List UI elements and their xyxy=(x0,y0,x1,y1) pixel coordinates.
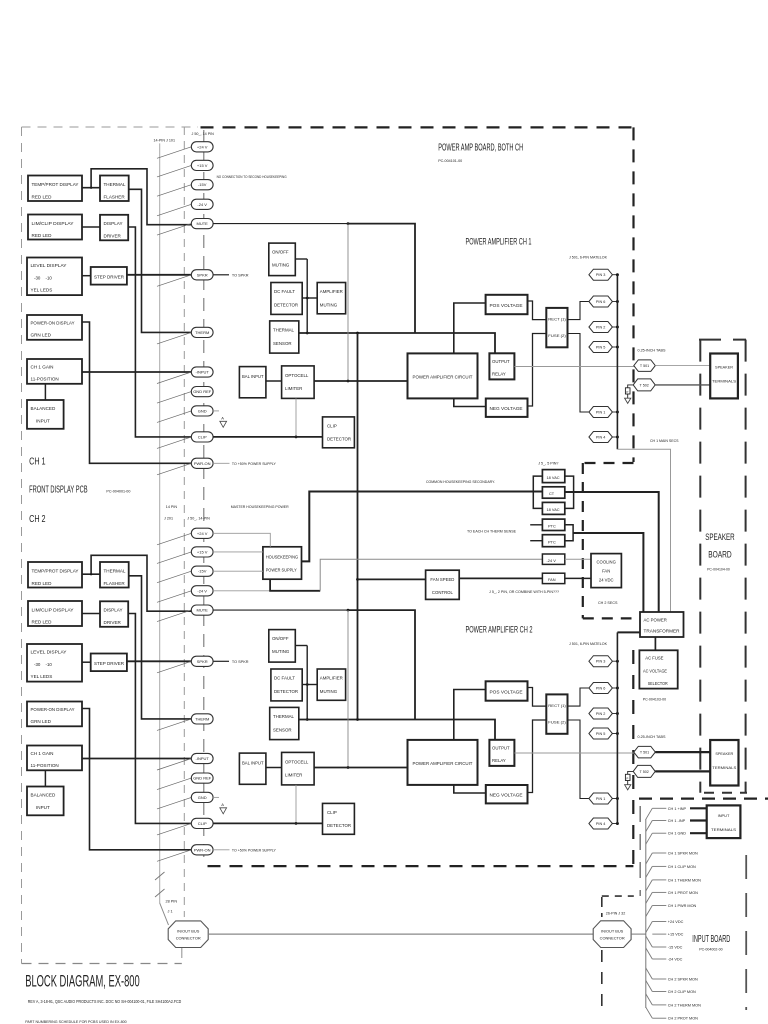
svg-text:-10: -10 xyxy=(46,662,53,667)
svg-text:DC FAULT: DC FAULT xyxy=(274,289,295,294)
CH 2 ON/OFF MUTING box xyxy=(269,630,296,663)
wire: ribbon fan to CH 2 -15V pin xyxy=(157,571,191,583)
wire: -24 V terminal to cooling fan (gray) xyxy=(565,558,591,560)
svg-text:MUTING: MUTING xyxy=(272,263,290,268)
svg-text:PIN 3: PIN 3 xyxy=(596,273,606,277)
power amp board dashed border (bottom) xyxy=(208,865,634,867)
connector J 32: IN/OUT BUS CONNECTOR (input board) xyxy=(593,921,631,948)
CH 1 LEVEL DISPLAY YEL LEDS box xyxy=(27,258,82,296)
wire: CH 1 PAC to POS VOLTAGE xyxy=(454,303,486,353)
wire: CH 1 TEMP/PROT DISPLAY to THERMAL FLASHER xyxy=(82,187,100,189)
connector pin CLIP (CH 2 J 50_) xyxy=(191,818,213,828)
svg-text:TRANSFORMER: TRANSFORMER xyxy=(644,628,680,633)
wire: FAN terminal to cooling fan xyxy=(565,577,591,579)
svg-text:THERMAL: THERMAL xyxy=(104,182,126,187)
wire: ribbon fan to CH 2 -INPUT pin xyxy=(157,759,191,771)
svg-text:SPEAKER: SPEAKER xyxy=(705,532,735,542)
wire: FAN SPEED CONTROL to FAN terminal xyxy=(459,577,542,579)
wire: PIN 2 stub to secondary bus xyxy=(612,713,617,715)
svg-text:BALANCED: BALANCED xyxy=(31,793,56,798)
svg-text:MUTING: MUTING xyxy=(320,303,338,308)
svg-text:14-PIN J 101: 14-PIN J 101 xyxy=(154,139,176,143)
wire: CH 1 T 502 to speaker terminals xyxy=(655,384,710,386)
svg-text:CLIP: CLIP xyxy=(327,423,337,428)
svg-text:COOLING: COOLING xyxy=(597,559,616,564)
wire: ribbon fan to CH 1 -24 V pin xyxy=(157,204,191,216)
svg-text:GND: GND xyxy=(198,795,207,800)
power amp board dashed border (top) xyxy=(201,126,634,128)
svg-text:NEG VOLTAGE: NEG VOLTAGE xyxy=(490,793,523,798)
svg-text:CH 1 THERM MON: CH 1 THERM MON xyxy=(668,878,701,882)
svg-text:BOARD: BOARD xyxy=(708,550,732,560)
junction on CH 2 flasher wire xyxy=(90,573,92,575)
svg-text:HOUSEKEEPING: HOUSEKEEPING xyxy=(266,554,299,559)
wire: PIN 5 stub to secondary bus xyxy=(612,733,617,735)
svg-text:RED LED: RED LED xyxy=(32,581,53,586)
svg-text:PTC: PTC xyxy=(548,524,556,529)
svg-text:IN/OUT BUS: IN/OUT BUS xyxy=(601,929,624,934)
svg-text:THERMAL: THERMAL xyxy=(273,714,295,719)
wire: CH 1 DISPLAY DRIVER to CLIP pin xyxy=(128,227,191,437)
CH 1 OPTOCELL LIMITER box xyxy=(282,366,315,399)
svg-text:11-POSITION: 11-POSITION xyxy=(31,377,59,382)
svg-text:CH 1 CLIP MON: CH 1 CLIP MON xyxy=(668,865,696,869)
connector pin -15V (CH 1 J 50_) xyxy=(191,180,213,190)
junction CH 1 clip line xyxy=(295,436,298,439)
svg-text:INPUT BOARD: INPUT BOARD xyxy=(692,934,730,945)
connector pin -INPUT (CH 1 J 50_) xyxy=(191,367,213,377)
svg-text:PIN 1: PIN 1 xyxy=(596,410,606,414)
CH 2 BAL INPUT box xyxy=(239,753,266,784)
input board dashed border (right) xyxy=(745,855,747,1010)
connector pin -24 V (CH 1 J 50_) xyxy=(191,199,213,209)
svg-text:GRN LED: GRN LED xyxy=(31,719,52,724)
wire: -15V pin to housekeeping supply (gray) xyxy=(213,570,263,572)
wire: 18 VAC windings right bracket xyxy=(565,476,574,508)
wire: ribbon fan to CH 1 CLIP pin xyxy=(157,437,191,449)
CH 2 THERMAL SENSOR box xyxy=(270,707,299,739)
wire: J 32 fan bundle xyxy=(645,819,647,1008)
svg-text:THERMAL: THERMAL xyxy=(273,327,295,332)
wire: PIN 4 stub to secondary bus xyxy=(612,436,617,438)
svg-text:P: P xyxy=(626,776,628,780)
svg-text:RECT (1): RECT (1) xyxy=(548,316,566,321)
signal CH 1 PWR MON xyxy=(646,906,653,917)
svg-text:RELAY: RELAY xyxy=(492,758,506,763)
wire: CH 2 muting bus to output relay xyxy=(299,720,495,740)
wire: muting tie to FAN SPEED CONTROL xyxy=(358,578,426,580)
svg-text:PIN 4: PIN 4 xyxy=(596,822,606,826)
CH 2 THERMAL FLASHER box xyxy=(100,562,129,588)
svg-text:J 5_, 5 PIN?: J 5_, 5 PIN? xyxy=(538,462,558,466)
CH 2 OUTPUT RELAY box xyxy=(489,740,514,766)
wire: CH 1 secondary bus xyxy=(616,275,618,450)
INPUT TERMINALS box xyxy=(707,805,741,838)
CH 2 GAIN 11-POSITION box xyxy=(27,746,82,771)
AC FUSE / AC VOLTAGE SELECTOR box xyxy=(639,650,677,688)
svg-text:18 VAC: 18 VAC xyxy=(547,507,560,512)
svg-text:RED LED: RED LED xyxy=(32,194,53,199)
svg-text:24 VDC: 24 VDC xyxy=(599,577,614,582)
svg-text:DETECTOR: DETECTOR xyxy=(327,436,351,441)
svg-text:FUSE (2): FUSE (2) xyxy=(548,333,566,338)
HOUSEKEEPING POWER SUPPLY box xyxy=(263,547,302,579)
junction PIN 5 on secondary bus xyxy=(616,346,619,349)
svg-text:-24 V: -24 V xyxy=(547,558,557,563)
svg-text:A: A xyxy=(221,416,224,421)
svg-text:+24 V: +24 V xyxy=(197,531,208,536)
svg-text:18 VAC: 18 VAC xyxy=(547,475,560,480)
svg-text:PIN 6: PIN 6 xyxy=(596,686,606,690)
svg-text:PWR-ON: PWR-ON xyxy=(194,847,211,852)
chassis ground symbol at CH 1 T 502 xyxy=(628,385,634,388)
wire: CH 2 secondary bus xyxy=(616,632,618,823)
signal CH 1 GND xyxy=(646,833,653,844)
svg-text:TO EACH CH THERM SENSE: TO EACH CH THERM SENSE xyxy=(467,529,517,533)
wire: CH 2 SPKR pin to TO SPKR xyxy=(213,660,229,662)
svg-text:14 PIN: 14 PIN xyxy=(166,505,178,509)
svg-text:PC-004104-00: PC-004104-00 xyxy=(707,568,730,572)
connector pin PIN 2 (CH 2 J 501) xyxy=(589,708,613,719)
CH 1 POWER AMPLIFIER CIRCUIT box xyxy=(408,353,478,398)
svg-text:POWER AMPLIFIER CIRCUIT: POWER AMPLIFIER CIRCUIT xyxy=(413,761,473,766)
svg-text:CLIP: CLIP xyxy=(198,821,207,826)
svg-text:LEVEL DISPLAY: LEVEL DISPLAY xyxy=(31,650,67,655)
svg-text:GND: GND xyxy=(198,408,207,413)
wire: CH 2 PWR-ON pin to power supply note xyxy=(213,849,229,851)
wire: CH 1 THERMAL FLASHER to THERM pin xyxy=(129,189,192,332)
junction PIN 3 on secondary bus xyxy=(616,273,619,276)
CH 2 RECT (1) FUSE (2) box xyxy=(546,694,567,733)
transformer winding CT xyxy=(542,487,564,498)
signal +15 VDC xyxy=(652,933,666,935)
svg-text:CH 2 SPKR MON: CH 2 SPKR MON xyxy=(668,978,698,982)
wire: housekeeping -24 V output xyxy=(270,579,320,591)
junction CH 2 clip line xyxy=(295,822,298,825)
signal CH 1 PROT MON xyxy=(646,892,653,903)
svg-text:LIM/CLIP DISPLAY: LIM/CLIP DISPLAY xyxy=(32,221,74,226)
signal CH 1 THERM MON xyxy=(646,880,653,891)
wire: CH 2 LIM/CLIP DISPLAY to DISPLAY DRIVER xyxy=(82,613,100,615)
svg-text:11-POSITION: 11-POSITION xyxy=(31,763,59,768)
wire: CH 1 muting vertical tie xyxy=(306,259,308,333)
svg-text:TEMP/PROT DISPLAY: TEMP/PROT DISPLAY xyxy=(32,182,79,187)
CH 1 AMPLIFIER MUTING box xyxy=(317,283,345,314)
signal -24 VDC xyxy=(646,948,653,959)
svg-text:OPTOCELL: OPTOCELL xyxy=(285,373,309,378)
signal CH 1 +INP xyxy=(646,808,653,819)
svg-text:POS VOLTAGE: POS VOLTAGE xyxy=(490,303,523,308)
svg-text:MUTE: MUTE xyxy=(197,221,209,226)
wire: -24 V feed to fan (gray) xyxy=(320,559,542,591)
FAN terminal box xyxy=(542,573,564,583)
connector pin PIN 3 (CH 1 J 501) xyxy=(589,269,613,280)
connector pin PWR-ON (CH 1 J 50_) xyxy=(191,458,213,468)
svg-text:RED LED: RED LED xyxy=(32,620,53,625)
wire: 18 VAC windings left bracket xyxy=(533,476,542,508)
wire: CH 2 POWER-ON DISPLAY to PWR-ON pin xyxy=(82,709,191,850)
wire: CH 1 CLIP pin to CLIP DETECTOR xyxy=(213,436,322,438)
wire: PIN 6 stub to secondary bus xyxy=(612,301,617,303)
svg-text:PTC: PTC xyxy=(548,539,556,544)
wire: CH 1 LIM/CLIP DISPLAY to DISPLAY DRIVER xyxy=(82,226,100,228)
connector J 1: IN/OUT BUS CONNECTOR (front display PCB) xyxy=(168,921,208,948)
junction PIN 6 on secondary bus xyxy=(616,300,619,303)
wire: CH 1 ON/OFF MUTING output xyxy=(295,258,307,260)
wire: PIN 3 stub to secondary bus xyxy=(612,274,617,276)
junction at CH 1 muting node xyxy=(306,297,309,300)
svg-text:MUTE: MUTE xyxy=(197,608,209,613)
junction PIN 3 on secondary bus xyxy=(616,660,619,663)
connector pin THERM (CH 1 J 50_) xyxy=(191,327,213,337)
connector pin PIN 4 (CH 1 J 501) xyxy=(589,432,613,443)
svg-text:-INPUT: -INPUT xyxy=(196,756,210,761)
svg-text:PC-004101-00: PC-004101-00 xyxy=(438,159,462,163)
CH 2 LEVEL DISPLAY YEL LEDS box xyxy=(27,644,82,682)
connector pin -24 V (CH 2 J 50_) xyxy=(191,586,213,596)
svg-text:FAN: FAN xyxy=(602,568,610,573)
wire: ribbon fan to CH 2 PWR-ON pin xyxy=(157,850,191,862)
svg-text:CH 1 GAIN: CH 1 GAIN xyxy=(31,365,54,370)
svg-text:NEG VOLTAGE: NEG VOLTAGE xyxy=(490,406,523,411)
signal -15 VDC xyxy=(646,936,653,947)
svg-text:TEMP/PROT DISPLAY: TEMP/PROT DISPLAY xyxy=(32,569,79,574)
svg-text:DRIVER: DRIVER xyxy=(104,234,122,239)
svg-text:STEP DRIVER: STEP DRIVER xyxy=(94,661,125,666)
svg-text:PIN 2: PIN 2 xyxy=(596,325,606,329)
connector pin PIN 6 (CH 2 J 501) xyxy=(589,683,613,694)
CH 1 NEG VOLTAGE box xyxy=(486,399,528,417)
wire: CH 1 OPTOCELL LIMITER to POWER AMPLIFIER CIRCUIT xyxy=(314,380,407,382)
wire: CH 1 mute to limiter (gray) xyxy=(347,224,349,381)
CH 2 TEMP/PROT DISPLAY RED LED box xyxy=(28,562,82,588)
speaker board dashed border (top) xyxy=(699,339,746,341)
svg-text:CH 1 MAIN SECS: CH 1 MAIN SECS xyxy=(650,439,679,443)
wire: -24 V pin line (gray) xyxy=(213,590,270,592)
svg-text:-10: -10 xyxy=(46,276,53,281)
svg-text:AMPLIFIER: AMPLIFIER xyxy=(320,289,343,294)
junction CH 1 muting bus / inter-channel tie xyxy=(356,332,359,335)
svg-text:J 201: J 201 xyxy=(164,516,173,520)
wire: CH 1 PAC to NEG VOLTAGE xyxy=(454,398,486,406)
connector pin SPKR (CH 2 J 50_) xyxy=(191,656,213,666)
speaker tab T 501 (CH 2, 0.25-INCH TABS) xyxy=(634,746,656,758)
junction CH 2 MUTE wire xyxy=(347,609,350,612)
power amp board dashed border (right upper) xyxy=(632,127,634,462)
svg-text:-15 VDC: -15 VDC xyxy=(668,946,683,950)
bus hash tick xyxy=(155,889,165,897)
CH 1 OUTPUT RELAY box xyxy=(489,353,514,379)
speaker board dashed border (right) xyxy=(745,340,747,793)
svg-text:T 502: T 502 xyxy=(640,383,649,387)
CH 1 POWER-ON DISPLAY GRN LED box xyxy=(27,315,82,340)
signal CH 2 THERM MON xyxy=(646,994,653,1005)
wire: +15 V pin to housekeeping supply (gray) xyxy=(213,551,263,553)
svg-text:J 501, 6-PIN MATELOK: J 501, 6-PIN MATELOK xyxy=(569,256,608,260)
connector pin +24 V (CH 1 J 50_) xyxy=(191,142,213,152)
svg-text:PIN 5: PIN 5 xyxy=(596,732,606,736)
svg-text:CH 1 GAIN: CH 1 GAIN xyxy=(31,751,54,756)
svg-text:PIN 1: PIN 1 xyxy=(596,797,606,801)
wire: CH 2 BAL INPUT to OPTOCELL LIMITER xyxy=(266,767,282,769)
svg-text:RELAY: RELAY xyxy=(492,371,506,376)
bus hash tick xyxy=(155,872,165,880)
svg-text:GND REF: GND REF xyxy=(193,389,212,394)
svg-text:TERMINALS: TERMINALS xyxy=(711,827,736,832)
wire: CH 2 OPTOCELL LIMITER to POWER AMPLIFIER CIRCUIT xyxy=(314,767,407,769)
input board dashed frame below J 32 connector xyxy=(601,950,603,1007)
svg-text:ON/OFF: ON/OFF xyxy=(272,636,289,641)
wire: CH 1 GAIN to BALANCED INPUT xyxy=(44,384,46,400)
connector pin MUTE (CH 2 J 50_) xyxy=(191,605,213,615)
PTC sensor (upper) xyxy=(542,519,564,530)
svg-text:TO +50% POWER SUPPLY: TO +50% POWER SUPPLY xyxy=(232,462,276,466)
CH 1 BALANCED INPUT box xyxy=(27,400,64,429)
svg-text:BALANCED: BALANCED xyxy=(31,406,56,411)
CH 1 ON/OFF MUTING box xyxy=(269,243,296,276)
svg-text:BAL INPUT: BAL INPUT xyxy=(242,374,264,379)
wire: CH 2 DISPLAY DRIVER to CLIP pin xyxy=(128,614,191,824)
connector pin -15V (CH 2 J 50_) xyxy=(191,566,213,576)
wire: CH 2 STEP DRIVER to SPKR pin xyxy=(127,660,191,662)
connector pin GND (CH 2 J 50_) xyxy=(191,792,213,802)
front display PCB dashed border (left) xyxy=(21,127,23,964)
svg-text:POWER SUPPLY: POWER SUPPLY xyxy=(266,567,297,572)
svg-text:-INPUT: -INPUT xyxy=(196,370,210,375)
svg-text:LIM/CLIP DISPLAY: LIM/CLIP DISPLAY xyxy=(32,608,74,613)
svg-text:LEVEL DISPLAY: LEVEL DISPLAY xyxy=(31,263,67,268)
front display PCB dashed border (bottom) xyxy=(22,963,182,965)
connector pin MUTE (CH 1 J 50_) xyxy=(191,219,213,229)
svg-text:CLIP: CLIP xyxy=(327,810,337,815)
svg-text:OUTPUT: OUTPUT xyxy=(492,359,510,364)
junction CH 1 limiter input xyxy=(347,380,350,383)
CH 2 DC FAULT DETECTOR box xyxy=(271,669,302,701)
CH 1 STEP DRIVER box xyxy=(91,267,127,285)
svg-text:PC-004103-00: PC-004103-00 xyxy=(643,698,666,702)
CH 2 DISPLAY DRIVER box xyxy=(100,601,128,627)
svg-text:CH 1 PWR MON: CH 1 PWR MON xyxy=(668,904,697,908)
svg-text:THERM: THERM xyxy=(195,716,209,721)
connector pin CLIP (CH 1 J 50_) xyxy=(191,432,213,442)
svg-text:IN/OUT BUS: IN/OUT BUS xyxy=(177,929,200,934)
svg-text:CH 1 +INP: CH 1 +INP xyxy=(668,807,687,811)
signal CH 1 -INP xyxy=(646,821,653,832)
svg-text:-24 V: -24 V xyxy=(197,588,207,593)
svg-text:SENSOR: SENSOR xyxy=(273,341,292,346)
svg-text:AMPLIFIER: AMPLIFIER xyxy=(320,676,343,681)
svg-text:28 PIN: 28 PIN xyxy=(166,900,178,904)
connector pin PIN 1 (CH 1 J 501) xyxy=(589,407,613,418)
svg-text:POWER AMP BOARD, BOTH CH: POWER AMP BOARD, BOTH CH xyxy=(438,143,523,154)
wire: CH 1 PWR-ON pin to power supply note xyxy=(213,462,229,464)
svg-text:POS VOLTAGE: POS VOLTAGE xyxy=(490,689,523,694)
svg-text:POWER AMPLIFIER CH 2: POWER AMPLIFIER CH 2 xyxy=(466,625,533,636)
transformer winding 18 VAC (lower) xyxy=(542,502,564,514)
CH 2 POS VOLTAGE box xyxy=(486,681,528,700)
wire: PIN 2 stub to secondary bus xyxy=(612,326,617,328)
connector pin -INPUT (CH 2 J 50_) xyxy=(191,753,213,763)
wire: housekeeping secondary (CT) line xyxy=(302,492,543,562)
CH 1 DC FAULT DETECTOR box xyxy=(271,283,302,315)
svg-text:TO SPKR: TO SPKR xyxy=(232,660,249,664)
svg-text:DETECTOR: DETECTOR xyxy=(274,303,298,308)
svg-text:PIN 2: PIN 2 xyxy=(596,712,606,716)
COOLING FAN 24 VDC box xyxy=(591,554,621,588)
svg-text:YEL LEDS: YEL LEDS xyxy=(31,674,53,679)
svg-text:PIN 6: PIN 6 xyxy=(596,300,606,304)
svg-text:MUTING: MUTING xyxy=(272,649,290,654)
wire: CH 1 POWER-ON DISPLAY to PWR-ON pin xyxy=(82,322,191,463)
speaker board dashed border (left) xyxy=(699,340,701,793)
CH 2 POWER-ON DISPLAY GRN LED box xyxy=(27,702,82,727)
svg-text:T 501: T 501 xyxy=(640,751,649,755)
connector pin SPKR (CH 1 J 50_) xyxy=(191,270,213,280)
svg-text:CH 2 SECS: CH 2 SECS xyxy=(598,601,618,605)
junction CH 1 muting bus left xyxy=(306,332,309,335)
svg-text:PART NUMBERING SCHEDULE FOR PC: PART NUMBERING SCHEDULE FOR PCBS USED IN… xyxy=(25,1019,127,1024)
svg-text:INPUT: INPUT xyxy=(36,805,50,810)
svg-text:+24 VDC: +24 VDC xyxy=(668,920,684,924)
wire: CH 2 MUTE drop to muting bus xyxy=(348,610,415,719)
svg-text:GND REF: GND REF xyxy=(193,776,212,781)
signal CH 2 PROT MON xyxy=(646,1007,653,1018)
CH 1 GAIN 11-POSITION box xyxy=(27,359,82,384)
svg-text:MUTING: MUTING xyxy=(320,689,338,694)
svg-text:THERM: THERM xyxy=(195,330,209,335)
svg-text:-15V: -15V xyxy=(198,569,207,574)
wire: CH 1 STEP DRIVER to SPKR pin xyxy=(127,274,191,276)
wire: PIN 1 stub to secondary bus xyxy=(612,798,617,800)
svg-text:T 501: T 501 xyxy=(640,364,649,368)
wire: ribbon fan to CH 1 PWR-ON pin xyxy=(157,463,191,475)
wire: ribbon fan to CH 2 SPKR pin xyxy=(157,661,191,673)
FAN SPEED CONTROL box xyxy=(426,570,460,599)
svg-text:PIN 4: PIN 4 xyxy=(596,435,606,439)
connector pin THERM (CH 2 J 50_) xyxy=(191,714,213,724)
wire: CH 2 THERMAL FLASHER to THERM pin xyxy=(129,576,192,719)
power amp board dashed border (right, below transformer) xyxy=(632,650,634,866)
svg-text:AC VOLTAGE: AC VOLTAGE xyxy=(643,668,667,673)
svg-text:J 50_, 14-PIN: J 50_, 14-PIN xyxy=(187,516,210,520)
J 101 / J 201 ribbon bus line (front display board) xyxy=(159,143,161,903)
front display PCB dashed border (right, below connector) xyxy=(181,948,183,964)
-24 V fan terminal box xyxy=(542,554,564,564)
svg-text:J 50_, 14 PIN: J 50_, 14 PIN xyxy=(192,132,215,136)
wire: inter-board bus between J 1 and J 32 xyxy=(208,933,593,935)
wire: ribbon fan to CH 1 -INPUT pin xyxy=(157,372,191,384)
svg-text:PWR-ON: PWR-ON xyxy=(194,461,211,466)
junction PIN 1 on secondary bus xyxy=(616,411,619,414)
CH 1 BAL INPUT box xyxy=(239,367,266,398)
connector pin +15 V (CH 1 J 50_) xyxy=(191,160,213,170)
power amp board inner dashed boundary at connector column xyxy=(203,130,205,864)
svg-text:INPUT: INPUT xyxy=(718,813,730,818)
wire: inter-channel muting tie (CH 1 bus to CH 2 bus) xyxy=(357,333,359,720)
PTC sensor (lower) xyxy=(542,535,564,547)
connector pin PIN 1 (CH 2 J 501) xyxy=(589,793,613,804)
CH 2 BALANCED INPUT box xyxy=(27,787,64,816)
connector pin PIN 6 (CH 1 J 501) xyxy=(589,296,613,307)
CH 2 OPTOCELL LIMITER box xyxy=(282,752,315,785)
connector pin PIN 5 (CH 1 J 501) xyxy=(589,342,613,353)
wire: CH 2 muting vertical tie xyxy=(306,646,308,720)
svg-text:DISPLAY: DISPLAY xyxy=(104,608,123,613)
wire: CH 2 GND pin stub to analog ground xyxy=(213,796,219,798)
wire: PTC line to AC power transformer xyxy=(573,533,643,612)
svg-text:CH 1 PROT MON: CH 1 PROT MON xyxy=(668,891,698,895)
junction PIN 5 on secondary bus xyxy=(616,732,619,735)
